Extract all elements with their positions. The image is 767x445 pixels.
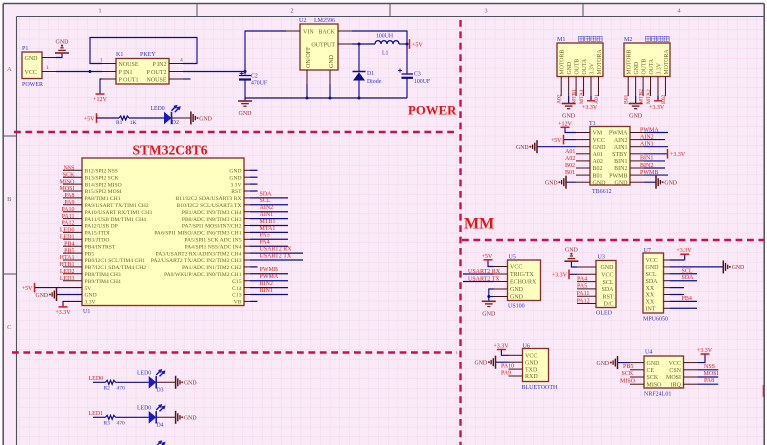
svg-text:D2: D2: [172, 120, 179, 126]
power port +3.3V stby: [667, 149, 669, 159]
wire U2 gnd to rail: [329, 84, 331, 98]
svg-text:AIN1: AIN1: [614, 145, 628, 151]
svg-text:GND: GND: [36, 293, 49, 299]
svg-text:GND: GND: [732, 265, 745, 271]
wire BIN2: [644, 167, 665, 169]
svg-text:MOTORA: MOTORA: [597, 49, 603, 75]
svg-text:MTA1: MTA1: [260, 226, 276, 232]
svg-text:A01: A01: [594, 94, 600, 104]
wire U4 csn: [698, 369, 719, 371]
svg-text:MOSI: MOSI: [666, 375, 681, 381]
svg-text:3.3V: 3.3V: [230, 182, 241, 188]
svg-text:VCC: VCC: [601, 273, 613, 279]
mcu U1 STM32C8T6: [82, 158, 244, 306]
svg-text:+3.3V: +3.3V: [493, 343, 509, 349]
svg-text:P IN1: P IN1: [119, 70, 133, 76]
svg-text:LED0: LED0: [151, 106, 165, 112]
svg-text:US100: US100: [508, 304, 525, 310]
svg-text:IRQ: IRQ: [671, 382, 682, 388]
svg-text:SCK: SCK: [622, 371, 634, 377]
pin K1 NOUSE2: [169, 78, 183, 80]
zone tick left B/C: [3, 273, 16, 275]
module U4 pins: [630, 362, 644, 364]
svg-text:B11/I2C2 SDA/USART3 RX: B11/I2C2 SDA/USART3 RX: [176, 196, 242, 202]
svg-text:100UF: 100UF: [414, 79, 431, 85]
svg-text:MTA2: MTA2: [646, 89, 652, 104]
svg-text:NRF24L01: NRF24L01: [644, 392, 671, 398]
svg-text:PA2/USART2 TX/ADC IN2/TIM2 CH3: PA2/USART2 TX/ADC IN2/TIM2 CH3: [151, 258, 242, 264]
wire PWMA: [644, 132, 668, 134]
svg-text:M1: M1: [557, 37, 565, 43]
resistor R1: [119, 116, 129, 120]
pin K1 P IN1: [102, 71, 116, 73]
svg-text:GND: GND: [646, 265, 660, 271]
svg-text:SCL: SCL: [682, 268, 693, 274]
svg-text:AIN1: AIN1: [260, 212, 274, 218]
svg-text:RXD: RXD: [525, 374, 538, 380]
svg-text:GND: GND: [56, 40, 70, 46]
svg-text:GND: GND: [629, 114, 643, 120]
svg-text:MISO: MISO: [647, 382, 663, 388]
svg-text:GND: GND: [664, 181, 677, 187]
svg-text:B01: B01: [593, 173, 603, 179]
svg-text:PWMB: PWMB: [260, 267, 278, 273]
svg-text:PA5/SPI1 SCK ADC IN5: PA5/SPI1 SCK ADC IN5: [184, 238, 241, 244]
svg-text:A02: A02: [593, 159, 603, 165]
svg-text:PWMB: PWMB: [609, 173, 627, 179]
power port +3.3V u6: [497, 349, 506, 351]
svg-text:L1: L1: [382, 51, 389, 57]
gnd port U6: [495, 356, 497, 369]
svg-text:LED0: LED0: [89, 376, 104, 382]
wire U1 5V: [35, 287, 82, 289]
svg-text:BLUETOOTH: BLUETOOTH: [522, 385, 559, 391]
svg-text:B01: B01: [565, 170, 575, 176]
svg-text:PA5: PA5: [260, 233, 270, 239]
svg-text:PA5: PA5: [577, 284, 587, 290]
wire P1 gnd to earth: [56, 53, 62, 58]
svg-text:USART2 TX: USART2 TX: [468, 276, 500, 282]
svg-text:SCL: SCL: [646, 272, 657, 278]
svg-text:VCC: VCC: [669, 361, 681, 367]
svg-text:PA12: PA12: [61, 221, 74, 227]
svg-text:3: 3: [484, 8, 487, 15]
svg-text:XX: XX: [646, 293, 655, 299]
svg-text:K1: K1: [116, 52, 123, 58]
ground rail: [245, 97, 407, 99]
svg-text:LED1: LED1: [89, 411, 104, 417]
svg-text:GND: GND: [562, 114, 576, 120]
ground earth U5: [482, 300, 496, 302]
svg-text:470: 470: [117, 386, 126, 392]
svg-text:GND: GND: [545, 181, 558, 187]
svg-text:1: 1: [46, 65, 49, 71]
svg-text:PB5: PB5: [85, 251, 95, 257]
power port +12V: [96, 93, 105, 95]
svg-text:PA3/USART2 RX/ADIN3/TIM2 CH4: PA3/USART2 RX/ADIN3/TIM2 CH4: [156, 251, 242, 257]
svg-text:PB8/TIM4 CH3: PB8/TIM4 CH3: [85, 272, 121, 278]
wire BIN1: [644, 160, 665, 162]
module U4 NRF24L01: [644, 356, 684, 388]
svg-text:R3: R3: [104, 421, 111, 427]
svg-text:INT: INT: [646, 307, 656, 313]
svg-text:A01: A01: [593, 152, 603, 158]
power port +3.3V u7: [680, 253, 689, 255]
svg-text:2: 2: [290, 8, 293, 15]
wire usart2 rx: [463, 273, 494, 275]
svg-text:PA12: PA12: [577, 298, 590, 304]
pin U2 ONOFF: [306, 70, 308, 84]
junction output node: [406, 43, 409, 46]
svg-text:GND: GND: [229, 169, 241, 175]
gnd port T1 right: [655, 176, 657, 189]
svg-text:C13: C13: [232, 293, 242, 299]
power port +5V mcu: [34, 283, 36, 293]
svg-text:GND: GND: [593, 145, 607, 151]
svg-text:C3: C3: [414, 72, 421, 78]
zone divider dashed horizontal mcu/led: [12, 351, 457, 353]
svg-text:+3.3V: +3.3V: [670, 152, 686, 158]
svg-text:LED0: LED0: [137, 405, 151, 411]
wire T1 gnd left: [538, 146, 577, 148]
capacitor C3: [406, 44, 408, 74]
svg-text:A02: A02: [565, 156, 575, 162]
svg-text:XX: XX: [646, 286, 655, 292]
svg-text:MOSI: MOSI: [704, 371, 719, 377]
svg-text:PA4: PA4: [260, 240, 270, 246]
svg-text:GND: GND: [634, 62, 640, 75]
svg-text:R2: R2: [104, 386, 111, 392]
gnd port led row1: [190, 112, 192, 125]
zone divider dashed horizontal power/mcu: [14, 131, 457, 133]
svg-text:USART2 TX: USART2 TX: [260, 253, 292, 259]
svg-text:GND: GND: [510, 295, 524, 301]
svg-text:MTA1: MTA1: [579, 89, 585, 104]
svg-text:AIN2: AIN2: [640, 134, 654, 140]
svg-text:+5V: +5V: [412, 42, 423, 48]
wire U4 gnd: [618, 362, 630, 364]
zone tick top 1/2: [196, 4, 198, 17]
zone divider dashed vertical: [459, 20, 461, 445]
svg-text:TXD: TXD: [525, 367, 538, 373]
capacitor C2: [239, 75, 251, 77]
power port +3.3V u4: [701, 353, 710, 355]
svg-text:PB4: PB4: [682, 296, 692, 302]
pin K1.4: [169, 63, 183, 65]
module U6 pins: [509, 354, 523, 356]
svg-text:PB7/I2C1 SDA/TIM4 CH2: PB7/I2C1 SDA/TIM4 CH2: [85, 265, 147, 271]
wire U1 3.3V: [63, 301, 82, 306]
svg-text:TB6612: TB6612: [592, 189, 612, 195]
wire ONOFF to rail: [306, 84, 308, 98]
svg-text:PA0/WKUP/ADC IN0/TIM2 CH1: PA0/WKUP/ADC IN0/TIM2 CH1: [164, 272, 242, 278]
svg-text:1K: 1K: [130, 120, 137, 126]
svg-text:+3.3V: +3.3V: [582, 105, 598, 111]
svg-text:PB4/INTRST: PB4/INTRST: [85, 244, 116, 250]
svg-text:MTB1: MTB1: [572, 89, 578, 104]
svg-text:PA15/JTDI: PA15/JTDI: [85, 231, 110, 237]
svg-text:PA11/USB DM/TIM1 CH4: PA11/USB DM/TIM1 CH4: [85, 217, 147, 223]
svg-text:GND: GND: [482, 312, 496, 318]
svg-text:BIN1: BIN1: [614, 159, 627, 165]
wire T1 VCC: [564, 139, 576, 141]
svg-text:STM32C8T6: STM32C8T6: [132, 143, 207, 158]
svg-text:PWMA: PWMA: [609, 131, 628, 137]
svg-text:ON/OFF: ON/OFF: [306, 46, 312, 68]
svg-text:USART2 RX: USART2 RX: [260, 247, 293, 253]
svg-text:PB5: PB5: [623, 364, 633, 370]
svg-text:AIN2: AIN2: [614, 138, 628, 144]
svg-text:BACK: BACK: [318, 30, 335, 36]
svg-text:BIN2: BIN2: [614, 166, 627, 172]
wire K1 out2 to C2: [183, 71, 245, 73]
wire AIN2: [644, 139, 665, 141]
svg-text:GND: GND: [229, 175, 241, 181]
svg-text:PWMB: PWMB: [640, 170, 658, 176]
svg-text:GND: GND: [567, 62, 573, 75]
power port +5V led: [96, 113, 98, 123]
svg-text:+5V: +5V: [84, 116, 95, 122]
motor connector M2 comment: [646, 36, 651, 41]
wire STBY to +3.3V: [644, 153, 667, 155]
svg-text:MTB2: MTB2: [639, 89, 645, 104]
svg-text:PA11: PA11: [577, 291, 590, 297]
svg-text:BIN2: BIN2: [260, 281, 273, 287]
svg-text:SCK: SCK: [647, 375, 659, 381]
display U3 OLED: [596, 261, 616, 308]
wire VCC to K1: [56, 71, 102, 73]
svg-text:C15: C15: [232, 279, 242, 285]
wire U6 gnd: [496, 361, 509, 363]
zone tick right: [763, 385, 765, 397]
svg-text:P OUT1: P OUT1: [119, 78, 139, 84]
svg-text:U3: U3: [598, 255, 605, 261]
sheet inner border: [17, 16, 764, 18]
junction rail onoff: [306, 97, 309, 100]
svg-text:B01: B01: [624, 94, 630, 104]
svg-text:PWMA: PWMA: [640, 127, 659, 133]
svg-text:C2: C2: [251, 74, 258, 80]
svg-text:PB6/I2C1 SCL/TIM4 CH1: PB6/I2C1 SCL/TIM4 CH1: [85, 258, 146, 264]
svg-text:VB: VB: [234, 300, 242, 306]
zone tick left A/B: [3, 135, 16, 137]
svg-text:ECHO/RX: ECHO/RX: [510, 280, 537, 286]
svg-text:NOUSE: NOUSE: [119, 62, 139, 68]
svg-text:B: B: [7, 196, 12, 203]
pin K1 P OUT2: [169, 71, 183, 73]
svg-text:LED1: LED1: [60, 235, 75, 241]
switch K1: [116, 59, 169, 85]
svg-text:PA10: PA10: [61, 207, 74, 213]
svg-text:+12V: +12V: [558, 121, 572, 127]
svg-text:+3.3V: +3.3V: [552, 273, 568, 279]
svg-text:LED0: LED0: [137, 370, 151, 376]
svg-text:PA12/USB DP: PA12/USB DP: [85, 224, 118, 230]
svg-text:MISO: MISO: [620, 378, 636, 384]
svg-text:470UF: 470UF: [251, 81, 268, 87]
svg-text:SCK: SCK: [63, 172, 75, 178]
wire R1 to D2: [129, 117, 164, 119]
svg-text:GND: GND: [510, 287, 524, 293]
svg-text:GND: GND: [593, 180, 607, 186]
svg-text:OUTA: OUTA: [582, 58, 588, 74]
svg-text:B14/SPI2 MISO: B14/SPI2 MISO: [85, 182, 122, 188]
power port +3.3V mcu: [59, 306, 68, 308]
wire L1 to +5V node: [399, 43, 408, 45]
power port +5V u5: [484, 259, 493, 261]
wire K1 bypass loop: [90, 38, 197, 64]
svg-text:OUTPUT: OUTPUT: [311, 43, 335, 49]
svg-text:+5V: +5V: [551, 138, 562, 144]
svg-text:A: A: [7, 66, 12, 73]
svg-text:3.3V: 3.3V: [589, 62, 595, 74]
svg-text:AIN2: AIN2: [260, 205, 274, 211]
sensor U5 pins: [494, 266, 508, 268]
svg-text:Diode: Diode: [367, 79, 382, 85]
zone tick top 2/3: [389, 4, 391, 17]
svg-text:GND: GND: [647, 361, 661, 367]
svg-text:PA10: PA10: [501, 364, 514, 370]
wire U3 gnd up: [571, 262, 577, 268]
svg-text:GND: GND: [25, 56, 39, 62]
svg-text:RST: RST: [602, 294, 613, 300]
svg-text:1: 1: [100, 58, 103, 64]
wire usart2 tx: [463, 281, 494, 283]
svg-text:RST: RST: [231, 189, 242, 195]
svg-text:+5V: +5V: [22, 286, 33, 292]
svg-text:U1: U1: [83, 309, 90, 315]
svg-text:SDA: SDA: [260, 191, 273, 197]
zone tick top 3/4: [582, 4, 584, 17]
wire VIN net: [245, 31, 286, 75]
svg-text:POWER: POWER: [22, 82, 43, 88]
svg-text:SDA: SDA: [682, 275, 695, 281]
svg-text:4: 4: [180, 58, 183, 64]
svg-text:+3.3V: +3.3V: [697, 348, 713, 354]
pin U2 OUTPUT: [338, 43, 352, 45]
svg-text:OLED: OLED: [596, 311, 613, 317]
svg-text:C: C: [7, 324, 11, 331]
svg-text:VCC: VCC: [25, 70, 37, 76]
svg-text:P IN2: P IN2: [153, 62, 167, 68]
svg-text:NSS: NSS: [63, 166, 74, 172]
diode D1: [358, 44, 360, 71]
svg-text:3.3V: 3.3V: [656, 62, 662, 74]
svg-text:PA6/SPI1 MISO/ADC IN6/TIM3 CH1: PA6/SPI1 MISO/ADC IN6/TIM3 CH1: [154, 231, 241, 237]
svg-text:SDA: SDA: [646, 279, 659, 285]
svg-text:GND: GND: [615, 180, 629, 186]
svg-text:CE: CE: [647, 368, 655, 374]
ground earth at P1: [55, 52, 69, 54]
svg-text:A01: A01: [565, 149, 575, 155]
regulator U2 LM2596: [300, 24, 338, 70]
svg-text:MOTORA: MOTORA: [664, 49, 670, 75]
wire T1 gnd2 left: [567, 181, 577, 183]
svg-text:GND: GND: [475, 361, 488, 367]
svg-text:SCL: SCL: [602, 280, 613, 286]
wire U5 gnds: [489, 289, 494, 301]
svg-text:D4: D4: [157, 423, 164, 429]
svg-text:U2: U2: [299, 18, 306, 24]
svg-text:U4: U4: [645, 350, 652, 356]
svg-text:HTB1: HTB1: [60, 262, 75, 268]
power port +5V output: [409, 39, 411, 49]
svg-text:VCC: VCC: [593, 138, 605, 144]
gnd port mcu: [56, 288, 58, 301]
wire PWMB: [644, 174, 668, 176]
pin U2 VIN: [286, 30, 300, 32]
inductor L1: [375, 41, 399, 44]
pin U2 BACK: [338, 30, 352, 32]
junction at K1 input: [89, 70, 92, 73]
svg-text:B10/I2C2 SCL/USART3 TX: B10/I2C2 SCL/USART3 TX: [177, 203, 242, 209]
svg-text:LM2596: LM2596: [314, 18, 335, 24]
mcu U1 left pins: [63, 169, 82, 171]
svg-text:MOTORB: MOTORB: [627, 50, 633, 75]
svg-text:R1: R1: [116, 120, 123, 126]
svg-text:PA10/USART RX/TIM1 CH3: PA10/USART RX/TIM1 CH3: [85, 210, 153, 216]
svg-text:STBY: STBY: [612, 152, 628, 158]
power port +3.3V u3: [568, 270, 570, 280]
pin K1.1: [102, 63, 116, 65]
junction at C2 top: [244, 70, 247, 73]
wire AIN1: [644, 146, 668, 148]
ground earth at rail: [244, 98, 246, 101]
svg-text:D1: D1: [367, 71, 374, 77]
sheet outer border: [3, 3, 764, 5]
junction rail d1: [358, 97, 361, 100]
svg-text:C14: C14: [232, 286, 242, 292]
svg-text:BIN1: BIN1: [260, 288, 273, 294]
svg-text:P1: P1: [22, 46, 28, 52]
junction rail gnd: [329, 97, 332, 100]
svg-text:VCC: VCC: [525, 354, 537, 360]
svg-text:PB1/ADC IN9/TIM3 CH4: PB1/ADC IN9/TIM3 CH4: [182, 210, 242, 216]
svg-text:VIN: VIN: [303, 30, 314, 36]
svg-text:SCL: SCL: [260, 198, 271, 204]
svg-text:POWER: POWER: [408, 103, 457, 117]
svg-text:MTB1: MTB1: [260, 219, 276, 225]
svg-text:100UH: 100UH: [376, 34, 394, 40]
svg-text:D/C: D/C: [603, 302, 613, 308]
svg-text:PB0/ADC IN8/TIM3 CH3: PB0/ADC IN8/TIM3 CH3: [182, 217, 242, 223]
svg-text:PA8/TIM1 CH1: PA8/TIM1 CH1: [85, 196, 121, 202]
svg-text:TRIG/TX: TRIG/TX: [510, 272, 534, 278]
svg-text:PA8: PA8: [64, 193, 74, 199]
power port +12V t1: [561, 126, 570, 128]
svg-text:LED0: LED0: [60, 228, 75, 234]
svg-text:PA4/SPI1 NSS/ADC IN4: PA4/SPI1 NSS/ADC IN4: [185, 244, 242, 250]
svg-text:CSN: CSN: [669, 368, 681, 374]
svg-text:PA4: PA4: [577, 276, 587, 282]
svg-text:PA8: PA8: [704, 378, 714, 384]
wire U4 irq: [698, 383, 719, 385]
sensor U5 US100: [508, 260, 541, 301]
driver T1 pins: [576, 132, 590, 134]
svg-text:M2: M2: [624, 37, 632, 43]
svg-text:GND: GND: [199, 116, 212, 122]
svg-text:PA9: PA9: [501, 371, 511, 377]
svg-text:SDA: SDA: [601, 287, 614, 293]
svg-text:PWMA: PWMA: [260, 274, 279, 280]
svg-text:MPU6050: MPU6050: [643, 317, 668, 323]
pin D2 cathode: [172, 117, 191, 119]
svg-text:B02: B02: [593, 166, 603, 172]
svg-text:OUTB: OUTB: [642, 59, 648, 75]
svg-text:GND: GND: [184, 416, 197, 422]
svg-text:+3.3V: +3.3V: [55, 310, 71, 316]
svg-text:VCC: VCC: [510, 265, 522, 271]
